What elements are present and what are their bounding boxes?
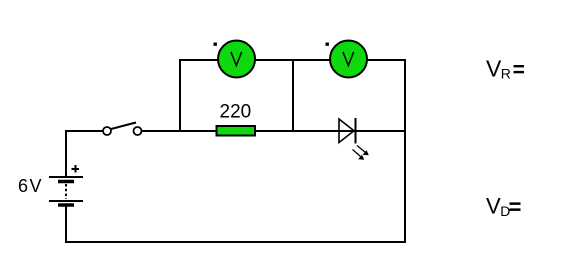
resistor R1 — [217, 126, 256, 136]
wire: right vertical — [404, 59, 406, 243]
wire: bottom rail — [66, 241, 406, 243]
svg-text:V: V — [486, 193, 501, 218]
switch S1 (open) — [103, 123, 142, 136]
LED arrow 1 — [357, 146, 369, 156]
wire: left vertical of voltmeter loop — [179, 59, 181, 132]
LED D1 — [339, 118, 356, 144]
voltmeter U1 (across resistor) — [218, 41, 255, 78]
voltmeter U2 polarity dot — [326, 43, 329, 46]
battery B1 (6V) — [49, 177, 83, 205]
LED arrow 2 — [353, 150, 365, 160]
wire: top rail (voltmeter branch) — [180, 59, 405, 61]
svg-text:D: D — [500, 203, 510, 219]
wire: left vertical below battery — [65, 205, 67, 243]
svg-text:V: V — [486, 56, 502, 82]
svg-text:R: R — [501, 66, 511, 82]
voltmeter U1 polarity dot — [214, 43, 217, 46]
wire: middle vertical (junction between voltmeters down to node between R and LED) — [292, 59, 294, 132]
wire: main horizontal rail (switch to right vertical, passes resistor and LED) — [137, 130, 405, 132]
voltmeter U2 (across LED) — [330, 41, 367, 78]
wire: left vertical above battery — [65, 130, 67, 177]
battery plus sign — [72, 165, 80, 173]
svg-text:6V: 6V — [18, 176, 43, 196]
label VR = (resistor voltage) — [486, 56, 524, 82]
wire: main horizontal rail left segment (battery to switch) — [66, 130, 107, 132]
label VD= (diode voltage) — [486, 193, 521, 219]
svg-text:220: 220 — [220, 102, 252, 123]
